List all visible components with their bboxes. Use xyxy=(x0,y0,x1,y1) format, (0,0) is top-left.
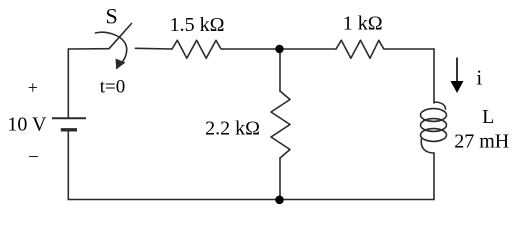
svg-text:1 kΩ: 1 kΩ xyxy=(343,13,383,35)
wire inductor bottom to bottom-right corner xyxy=(433,153,435,200)
wire left vertical (battery bottom to bottom-left corner) xyxy=(67,131,69,200)
bottom junction dot xyxy=(275,196,284,205)
wire node A to 1k resistor xyxy=(280,48,337,50)
resistor 2.2 kΩ (vertical zigzag) xyxy=(271,91,290,158)
wire left vertical (corner to battery top) xyxy=(67,49,69,118)
switch actuate arrow (curved, t=0) xyxy=(96,32,127,64)
svg-text:+: + xyxy=(28,78,38,98)
switch arrowhead xyxy=(116,59,126,70)
wire bottom horizontal xyxy=(68,199,434,201)
svg-text:t=0: t=0 xyxy=(100,77,126,98)
wire 2.2k resistor to bottom node xyxy=(279,158,281,200)
wire right vertical (top corner to inductor) xyxy=(433,49,435,103)
svg-text:−: − xyxy=(28,147,39,168)
svg-text:27 mH: 27 mH xyxy=(454,131,509,153)
current arrow i (line) xyxy=(456,58,458,83)
current arrow i (head) xyxy=(451,81,464,93)
svg-text:2.2 kΩ: 2.2 kΩ xyxy=(205,117,260,139)
svg-text:S: S xyxy=(105,3,117,28)
battery 10 V negative plate (short thick) xyxy=(61,128,77,131)
battery 10 V positive plate (long) xyxy=(52,117,86,119)
resistor 1 kΩ (zigzag) xyxy=(336,40,386,58)
resistor 1.5 kΩ (zigzag) xyxy=(172,40,223,58)
wire 1.5k resistor to node A xyxy=(223,48,280,50)
svg-text:L: L xyxy=(482,106,494,128)
wire node A down to 2.2k resistor xyxy=(279,49,281,91)
wire switch right contact to 1.5k resistor xyxy=(136,47,173,50)
wire 1k resistor to top-right corner xyxy=(386,48,434,50)
svg-text:i: i xyxy=(476,66,482,90)
svg-text:10 V: 10 V xyxy=(7,113,47,135)
node A junction dot (top) xyxy=(275,45,283,53)
svg-text:1.5 kΩ: 1.5 kΩ xyxy=(170,14,225,36)
switch S blade xyxy=(109,24,132,49)
inductor L coil loops xyxy=(434,102,446,109)
wire top-left horizontal (corner to switch) xyxy=(68,48,109,50)
